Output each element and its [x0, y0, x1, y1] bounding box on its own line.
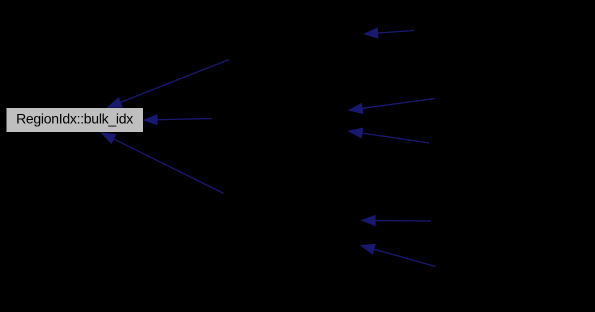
- edge 7: second-level caller -> bottom caller: [362, 216, 431, 226]
- edge 3: line: [108, 136, 223, 193]
- edge 6: line: [356, 132, 429, 143]
- edge 8: line: [368, 248, 436, 267]
- edge 7: line: [369, 220, 431, 223]
- edge 4: line: [372, 31, 414, 34]
- edge 7: arrowhead: [362, 216, 375, 226]
- edge 6: arrowhead: [349, 128, 363, 138]
- edge 1: caller (top, hidden node) -> RegionIdx::bulk_idx: [108, 60, 229, 108]
- edge 1: arrowhead: [108, 98, 122, 107]
- edge 8: arrowhead: [361, 244, 375, 253]
- svg-text:RegionIdx::bulk_idx: RegionIdx::bulk_idx: [16, 110, 133, 126]
- edge 4: arrowhead: [364, 28, 378, 38]
- edge 3: arrowhead: [102, 133, 116, 143]
- edge 5: arrowhead: [349, 104, 363, 114]
- edge 3: caller (bottom, hidden node) -> RegionIdx::bulk_idx: [102, 133, 224, 193]
- edge 6: second-level caller -> middle caller: [349, 128, 429, 143]
- edge 2: caller (middle, hidden node) -> RegionIdx::bulk_idx: [144, 115, 212, 125]
- edge 2: line: [151, 119, 212, 120]
- edge 5: second-level caller -> middle caller: [349, 99, 435, 114]
- edge 4: second-level caller -> top caller: [364, 28, 414, 38]
- edge 2: arrowhead: [144, 115, 157, 125]
- edge 8: second-level caller -> bottom caller: [361, 244, 436, 266]
- node RegionIdx::bulk_idx (highlighted/current node): [6, 108, 144, 133]
- edge 1: line: [115, 60, 229, 105]
- edge 5: line: [356, 99, 435, 110]
